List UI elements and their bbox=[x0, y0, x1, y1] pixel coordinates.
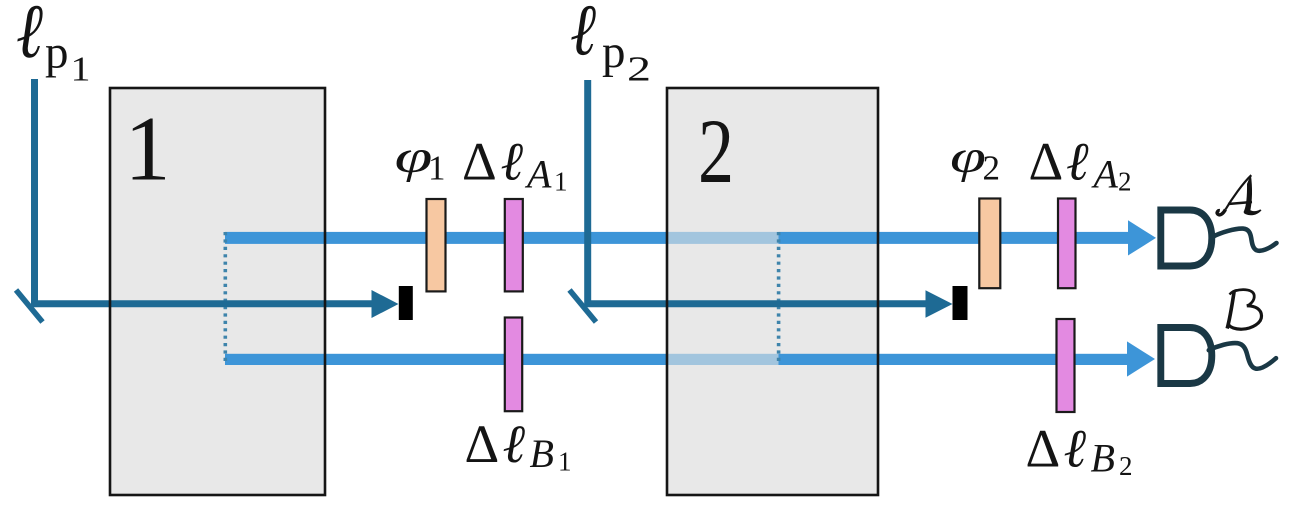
svg-text:φ: φ bbox=[950, 131, 986, 183]
svg-text:1: 1 bbox=[71, 50, 91, 89]
label dl_A1 bbox=[462, 132, 568, 197]
svg-text:2: 2 bbox=[698, 100, 734, 202]
svg-text:A: A bbox=[524, 152, 552, 197]
phase plate phi1 (orange) bbox=[427, 199, 446, 291]
svg-text:Δ: Δ bbox=[1029, 132, 1064, 192]
svg-text:ℓ: ℓ bbox=[570, 0, 596, 71]
svg-text:p: p bbox=[602, 26, 626, 78]
svg-text:2: 2 bbox=[1118, 167, 1132, 197]
delay plate dl_B1 (pink) bbox=[505, 318, 522, 412]
mirror 2 bbox=[570, 290, 597, 322]
crystal box 1 fill bbox=[110, 88, 325, 495]
pump arrowhead 2 bbox=[926, 290, 953, 318]
svg-text:ℓ: ℓ bbox=[1066, 132, 1089, 192]
label dl_A2 bbox=[1029, 132, 1132, 197]
svg-text:2: 2 bbox=[983, 149, 1001, 188]
svg-text:φ: φ bbox=[395, 131, 433, 183]
label phi1 bbox=[395, 131, 446, 188]
detector A (D-shape) bbox=[1161, 210, 1212, 266]
label dl_B1 bbox=[465, 414, 572, 477]
pump arrowhead 1 bbox=[372, 290, 399, 318]
mirror 1 bbox=[16, 290, 43, 322]
label dl_B2 bbox=[1026, 419, 1133, 482]
crystal box 2 fill bbox=[667, 88, 878, 495]
crystal box 2 border bbox=[667, 88, 878, 495]
beam dump 2 (black) bbox=[953, 286, 968, 320]
svg-text:B: B bbox=[530, 431, 554, 476]
dotted emission line in crystal 2 bbox=[777, 232, 781, 365]
svg-text:Δ: Δ bbox=[465, 414, 500, 474]
svg-text:Δ: Δ bbox=[462, 132, 497, 192]
svg-text:ℓ: ℓ bbox=[501, 132, 524, 192]
phase plate phi2 (orange) bbox=[979, 199, 1000, 289]
svg-text:A: A bbox=[1091, 152, 1119, 197]
svg-text:1: 1 bbox=[428, 149, 446, 188]
pump beam 1 (dark teal, vertical + horizontal) bbox=[35, 79, 373, 304]
label phi2 bbox=[950, 131, 1000, 188]
svg-text:ℓ: ℓ bbox=[503, 414, 526, 474]
crystal box 1 border bbox=[110, 88, 325, 495]
label l_p2 bbox=[570, 0, 651, 89]
beam B (idler, bottom light blue) bbox=[225, 341, 1155, 376]
svg-text:B: B bbox=[1091, 436, 1115, 481]
svg-text:1: 1 bbox=[554, 167, 568, 197]
svg-text:1: 1 bbox=[125, 98, 171, 200]
dotted emission line in crystal 1 bbox=[224, 232, 228, 365]
beam A (signal, top light blue) bbox=[225, 220, 1156, 255]
label script A (detector A) bbox=[1217, 174, 1261, 215]
svg-text:p: p bbox=[45, 27, 69, 79]
beam dump 1 (black) bbox=[399, 286, 413, 320]
pump beam 2 (dark teal, vertical + horizontal) bbox=[588, 80, 926, 304]
delay plate dl_A1 (pink) bbox=[505, 199, 523, 291]
svg-text:ℓ: ℓ bbox=[1064, 419, 1087, 479]
svg-text:1: 1 bbox=[558, 447, 572, 477]
delay plate dl_B2 (pink) bbox=[1057, 319, 1075, 412]
label l_p1 bbox=[16, 0, 91, 89]
svg-text:2: 2 bbox=[627, 50, 651, 89]
detector B wire squiggle bbox=[1209, 343, 1276, 369]
svg-text:ℓ: ℓ bbox=[16, 0, 43, 74]
svg-text:Δ: Δ bbox=[1026, 419, 1061, 479]
detector A wire squiggle bbox=[1213, 229, 1277, 251]
svg-text:2: 2 bbox=[1119, 451, 1133, 481]
detector B (D-shape) bbox=[1161, 328, 1212, 384]
delay plate dl_A2 (pink) bbox=[1058, 199, 1076, 289]
label script B (detector B) bbox=[1227, 290, 1261, 330]
